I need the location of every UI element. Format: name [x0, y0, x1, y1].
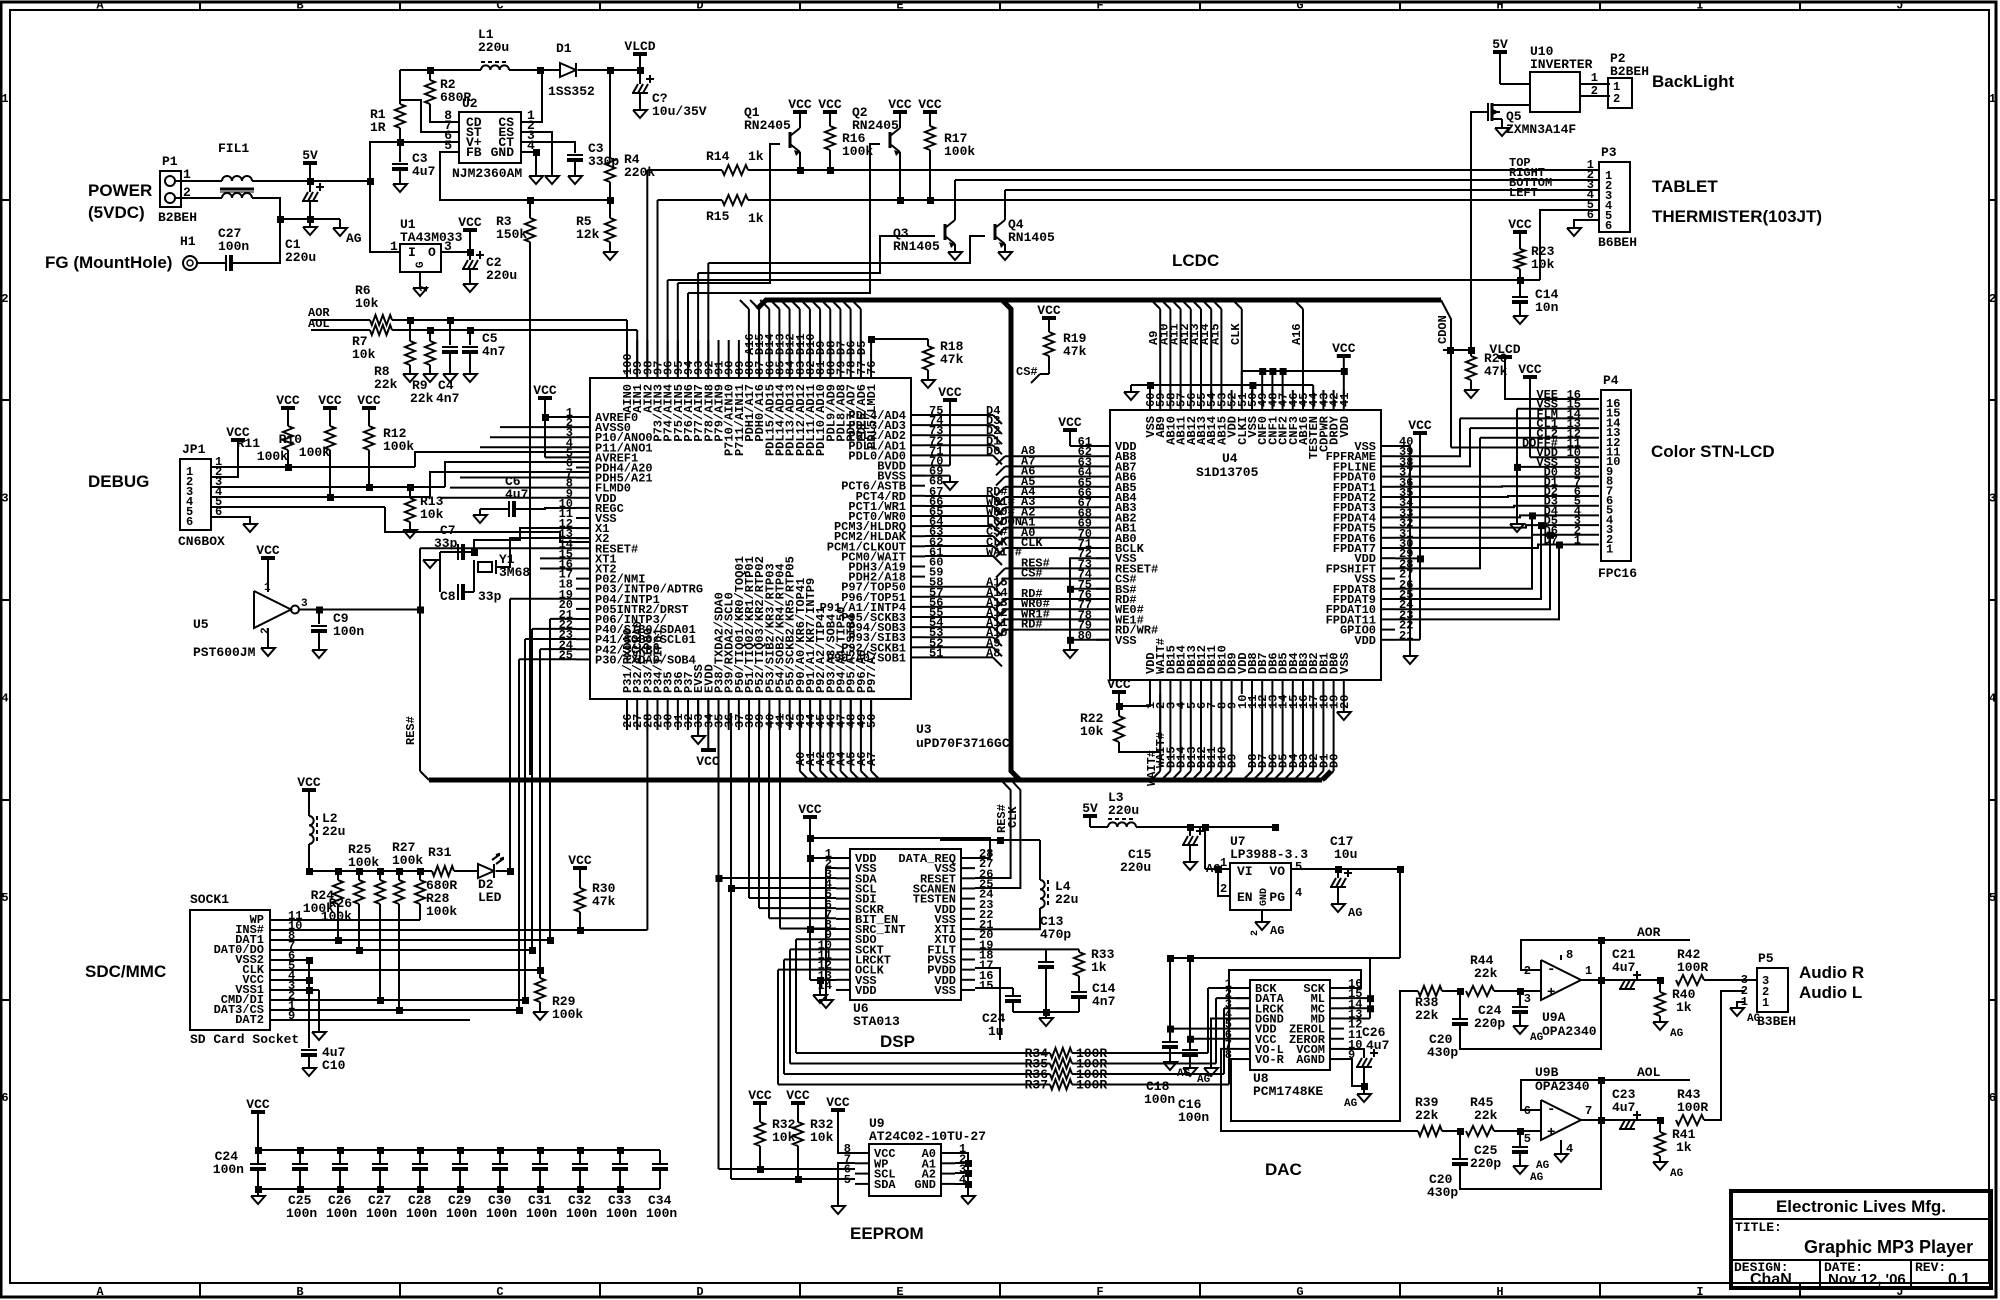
power symbol VLCD right — [1498, 355, 1512, 359]
svg-text:RN1405: RN1405 — [1008, 230, 1055, 245]
U4 left pins 61-80 — [1096, 445, 1110, 447]
wire top rail from R1 to L1 — [400, 69, 430, 71]
svg-text:I: I — [1696, 0, 1703, 13]
resistor R20 47k — [1470, 350, 1472, 356]
svg-text:SOCK1: SOCK1 — [190, 892, 229, 907]
wire U4 data bus D15-D0 to LCDC boundary — [1159, 694, 1161, 771]
svg-text:4n7: 4n7 — [436, 391, 459, 406]
svg-text:BackLight: BackLight — [1652, 72, 1735, 91]
svg-text:10k: 10k — [352, 347, 376, 362]
svg-text:F: F — [1096, 1285, 1103, 1299]
svg-text:VCC: VCC — [1332, 341, 1356, 356]
svg-text:2: 2 — [1220, 882, 1227, 896]
svg-text:Electronic Lives Mfg.: Electronic Lives Mfg. — [1776, 1197, 1946, 1216]
capacitor C14b 4n7 — [1071, 991, 1087, 993]
svg-text:TITLE:: TITLE: — [1735, 1220, 1782, 1235]
svg-text:3: 3 — [1989, 492, 1996, 506]
svg-text:VCC: VCC — [297, 775, 321, 790]
svg-text:3: 3 — [1524, 992, 1531, 1006]
resistor R3 150k — [525, 218, 535, 242]
wires U10 to P2 — [1580, 83, 1610, 85]
svg-text:2: 2 — [260, 627, 272, 634]
svg-text:22k: 22k — [374, 377, 398, 392]
capacitor C27 100n — [377, 1147, 384, 1154]
svg-text:5: 5 — [1, 891, 8, 905]
svg-text:AG: AG — [346, 231, 362, 246]
svg-text:100n: 100n — [218, 239, 249, 254]
svg-text:R37: R37 — [1025, 1078, 1048, 1093]
svg-text:A16: A16 — [1290, 323, 1304, 345]
U3 right pins 75-51 — [911, 414, 925, 416]
svg-text:1: 1 — [1, 92, 8, 106]
P4 row wires — [1517, 408, 1599, 410]
ground under C1 — [309, 219, 311, 227]
svg-text:5V: 5V — [1082, 801, 1098, 816]
svg-text:U4: U4 — [1222, 451, 1238, 466]
svg-text:22u: 22u — [322, 824, 345, 839]
svg-text:VCC: VCC — [458, 215, 482, 230]
svg-text:15: 15 — [979, 979, 993, 993]
VCC at U5 — [261, 556, 275, 560]
svg-text:VSS: VSS — [934, 984, 956, 998]
svg-text:76: 76 — [865, 361, 879, 375]
svg-text:R14: R14 — [706, 149, 730, 164]
svg-text:H: H — [1496, 0, 1503, 13]
capacitor C4 4n7 — [447, 317, 454, 324]
power symbol VCC at U1 — [463, 228, 477, 232]
svg-text:2: 2 — [1, 292, 8, 306]
U6 right pins 28-15 — [961, 857, 975, 859]
svg-text:U5: U5 — [193, 617, 209, 632]
capacitor C25 100n — [297, 1147, 304, 1154]
svg-text:10n: 10n — [1535, 300, 1559, 315]
svg-text:100n: 100n — [366, 1206, 397, 1221]
capacitor C26 100n — [337, 1147, 344, 1154]
svg-text:B3BEH: B3BEH — [1757, 1014, 1796, 1029]
staircase JP1 to MCU — [415, 452, 590, 467]
svg-text:E: E — [896, 1285, 903, 1299]
svg-text:2: 2 — [1989, 292, 1996, 306]
svg-text:ZXMN3A14F: ZXMN3A14F — [1506, 122, 1576, 137]
svg-text:POWER: POWER — [88, 181, 152, 200]
svg-text:EN: EN — [1237, 890, 1253, 905]
U6 VSS pin2 ground — [826, 868, 836, 1000]
svg-text:DAT2: DAT2 — [235, 1013, 264, 1027]
svg-text:RES#: RES# — [404, 716, 418, 745]
capacitor C2 220u — [463, 260, 468, 269]
svg-text:VCC: VCC — [256, 543, 280, 558]
wire P1 pin1 to FIL1 — [175, 180, 222, 182]
svg-text:E: E — [896, 0, 903, 13]
svg-text:P1: P1 — [162, 154, 178, 169]
svg-text:THERMISTER(103JT): THERMISTER(103JT) — [1652, 207, 1822, 226]
svg-text:100R: 100R — [1677, 960, 1708, 975]
svg-text:220k: 220k — [624, 165, 655, 180]
LCDC section thick boundary — [757, 300, 1441, 309]
wire FILT net — [975, 948, 1079, 950]
resistor R22 10k — [1118, 706, 1120, 716]
svg-text:47k: 47k — [940, 352, 964, 367]
power symbol VCC at P4 — [1523, 375, 1537, 379]
P4 VSS ground column — [1516, 409, 1518, 524]
capacitor C29 100n — [457, 1147, 464, 1154]
svg-text:100n: 100n — [333, 624, 364, 639]
svg-text:B2BEH: B2BEH — [1610, 64, 1649, 79]
svg-text:100n: 100n — [326, 1206, 357, 1221]
U4 right pins 40-21 — [1381, 445, 1395, 447]
wire VCC33 rail — [1338, 868, 1400, 870]
svg-text:220u: 220u — [478, 40, 509, 55]
JP1 pin3 wire — [225, 486, 445, 488]
svg-text:VSS: VSS — [1115, 634, 1137, 648]
svg-text:5: 5 — [444, 138, 452, 153]
U9 WP/ground — [838, 1163, 855, 1206]
U4 left pin tails with diagonals — [1005, 455, 1096, 457]
svg-text:O: O — [428, 245, 436, 260]
svg-text:S1D13705: S1D13705 — [1196, 465, 1259, 480]
wire RIGHT electrode — [954, 180, 956, 220]
svg-text:+: + — [1547, 985, 1555, 1001]
resistor R9 22k — [427, 327, 434, 334]
svg-text:100n: 100n — [1144, 1092, 1175, 1107]
capacitor C33 100n — [617, 1147, 624, 1154]
capacitor C3 330p — [521, 142, 575, 153]
svg-text:6: 6 — [1605, 219, 1612, 233]
svg-text:C: C — [496, 1285, 503, 1299]
wires tablet sense down to MCU — [646, 170, 648, 364]
svg-text:430p: 430p — [1427, 1185, 1458, 1200]
capacitor C5 4n7 — [467, 327, 474, 334]
wire R2 to CD pin — [430, 104, 459, 122]
svg-text:AG: AG — [1536, 1160, 1550, 1172]
svg-text:CLK: CLK — [1006, 806, 1020, 828]
capacitor C10 4u7 — [301, 1049, 317, 1051]
svg-text:100k: 100k — [426, 904, 457, 919]
wire Q5 gate down to CDON node — [1471, 112, 1488, 350]
VCC at U6 — [803, 815, 817, 819]
wire thermister sense across sheet — [668, 279, 1520, 281]
svg-text:AG: AG — [1344, 1098, 1358, 1110]
svg-text:TA43M033: TA43M033 — [400, 230, 463, 245]
svg-text:B: B — [296, 1285, 303, 1299]
MOSFET Q5 ZXMN3A14F — [1487, 103, 1489, 121]
svg-text:RN2405: RN2405 — [852, 118, 899, 133]
svg-text:220u: 220u — [1120, 860, 1151, 875]
capacitor C24 220p — [1519, 991, 1521, 1006]
U9 address pins strap — [955, 1153, 968, 1196]
svg-text:G: G — [1296, 0, 1303, 13]
SD pull-up rail — [309, 870, 432, 872]
svg-text:P5: P5 — [1758, 951, 1774, 966]
svg-text:VCC: VCC — [798, 802, 822, 817]
wire FIL1 bottom to AG net — [252, 198, 340, 219]
svg-text:DEBUG: DEBUG — [88, 472, 149, 491]
svg-text:DSP: DSP — [880, 1032, 915, 1051]
VCC R23 divider — [1513, 230, 1527, 234]
svg-text:VCC: VCC — [276, 393, 300, 408]
wires SDO/SCKT/LRCKT/OCLK to DAC — [796, 938, 836, 940]
svg-text:5: 5 — [1295, 860, 1302, 874]
U8 VCC feed and C16 100n — [1187, 955, 1194, 962]
svg-text:4u7: 4u7 — [1366, 1038, 1389, 1053]
svg-text:I: I — [408, 245, 416, 260]
svg-text:R31: R31 — [428, 845, 452, 860]
svg-text:FG (MountHole): FG (MountHole) — [45, 253, 172, 272]
U9A feedback loop — [1521, 940, 1601, 970]
U8 VCOM capacitor C26 4u7 — [1344, 1049, 1364, 1058]
svg-text:VCC: VCC — [1037, 303, 1061, 318]
LCD data bus FPDAT8-11 joining D4-D7 — [1395, 515, 1532, 588]
DSP analog ground rail — [1013, 1011, 1079, 1013]
svg-text:47k: 47k — [592, 894, 616, 909]
svg-text:LED: LED — [478, 890, 502, 905]
svg-text:SD Card Socket: SD Card Socket — [190, 1032, 299, 1047]
JP1 pin4 wire — [225, 496, 430, 498]
capacitor C3 4u7 at U2 — [399, 142, 401, 162]
wire FPSHIFT to CL2 — [1395, 438, 1480, 569]
svg-text:3: 3 — [1, 492, 8, 506]
wire U2 pin2 ES to ground — [521, 132, 552, 176]
svg-text:1: 1 — [1606, 543, 1613, 557]
svg-text:PDL5/LMD1: PDL5/LMD1 — [865, 384, 879, 449]
svg-text:uPD70F3716GC: uPD70F3716GC — [916, 736, 1010, 751]
analog ground AG — [339, 219, 341, 228]
resistor R41 1k — [1655, 1132, 1665, 1156]
wires SDI/SCKR/BIT_EN/SRC_INT from MCU — [749, 897, 836, 899]
svg-text:U9B: U9B — [1535, 1065, 1559, 1080]
svg-text:150k: 150k — [496, 227, 527, 242]
capacitor C24b 1u — [1005, 995, 1021, 997]
wire CDON link — [1443, 349, 1471, 351]
U4 VDD pins to VCC column — [1419, 437, 1421, 640]
svg-text:D1: D1 — [556, 41, 572, 56]
P5 pin1 ground — [1737, 1002, 1745, 1008]
resistor R8 22k — [407, 317, 414, 324]
svg-text:G: G — [1296, 1285, 1303, 1299]
U4 pin72 VSS and pin80 VSS grounds — [1070, 558, 1110, 650]
svg-text:6: 6 — [186, 515, 193, 529]
svg-text:100n: 100n — [406, 1206, 437, 1221]
capacitor C25 220p — [1519, 1131, 1521, 1146]
svg-text:430p: 430p — [1427, 1045, 1458, 1060]
U8 VO-L to R39 — [1221, 1049, 1418, 1131]
svg-text:100k: 100k — [299, 445, 330, 460]
svg-text:6: 6 — [1989, 1091, 1996, 1105]
svg-text:B2BEH: B2BEH — [158, 210, 197, 225]
U4 top A9-A15 bus from LCDC boundary — [1151, 300, 1160, 309]
svg-text:+: + — [1547, 1125, 1555, 1141]
svg-text:EEPROM: EEPROM — [850, 1224, 924, 1243]
VCC at U4 bottom — [1112, 690, 1126, 694]
svg-text:10u/35V: 10u/35V — [652, 104, 707, 119]
SOCK1 signal wires — [284, 919, 420, 921]
resistor R17 100k — [923, 110, 937, 114]
svg-text:100R: 100R — [1677, 1100, 1708, 1115]
wire RES# to MCU RESET — [420, 547, 576, 549]
U1 output to VCC — [441, 251, 470, 253]
svg-text:SDC/MMC: SDC/MMC — [85, 962, 166, 981]
capacitor C14 10n — [1519, 280, 1521, 296]
svg-text:VCC: VCC — [246, 1097, 270, 1112]
svg-text:R15: R15 — [706, 209, 730, 224]
svg-text:1: 1 — [183, 167, 191, 182]
svg-text:GND: GND — [1259, 888, 1270, 906]
svg-text:VCC: VCC — [818, 97, 842, 112]
wire thermister sense to AIN — [667, 280, 669, 364]
svg-text:22k: 22k — [1415, 1008, 1439, 1023]
svg-text:1SS352: 1SS352 — [548, 84, 595, 99]
U9 SCL/SDA wires — [719, 1168, 856, 1170]
capacitor C? 10u/35V — [633, 84, 638, 93]
wire U4 pin20 VSS to ground — [1343, 694, 1345, 712]
inductor L2 22u — [309, 816, 314, 844]
inductor L4 22u — [1040, 880, 1045, 908]
svg-text:AG: AG — [1670, 1168, 1684, 1180]
wire V+ pin to 5V rail — [370, 142, 459, 181]
svg-text:VDD: VDD — [855, 984, 877, 998]
JP1 pin1 wire — [225, 466, 415, 468]
svg-text:H: H — [1496, 1285, 1503, 1299]
resistor R33 1k — [1074, 952, 1084, 976]
U4 CNF strap to VCC — [1242, 370, 1344, 372]
svg-text:INVERTER: INVERTER — [1530, 57, 1593, 72]
resistor R13 10k — [405, 498, 415, 522]
svg-text:AG: AG — [1348, 906, 1362, 920]
svg-text:220u: 220u — [1108, 803, 1139, 818]
svg-text:GND: GND — [914, 1178, 936, 1192]
U6 left pins 1-14 — [836, 857, 850, 859]
svg-text:FIL1: FIL1 — [218, 141, 249, 156]
capacitor C9 100n — [318, 610, 320, 625]
svg-text:1k: 1k — [1676, 1000, 1692, 1015]
svg-text:ChaN: ChaN — [1750, 1271, 1792, 1288]
wire LED drive from P04 — [510, 598, 576, 600]
svg-text:100k: 100k — [383, 439, 414, 454]
svg-text:22u: 22u — [1055, 892, 1078, 907]
wire FPLINE to CL1 — [1395, 428, 1470, 466]
svg-text:AT24C02-10TU-27: AT24C02-10TU-27 — [869, 1129, 986, 1144]
svg-text:8: 8 — [1566, 948, 1573, 962]
svg-text:RN1405: RN1405 — [893, 239, 940, 254]
svg-text:VCC: VCC — [918, 97, 942, 112]
U8 VDD feed and C18 100n — [1167, 955, 1174, 962]
U9A power from 5V — [1560, 955, 1562, 960]
capacitor C30 100n — [497, 1147, 504, 1154]
svg-text:DAC: DAC — [1265, 1160, 1302, 1179]
svg-text:VCC: VCC — [888, 97, 912, 112]
power symbol VCC at L2 — [302, 788, 316, 792]
svg-text:P4: P4 — [1603, 373, 1619, 388]
wire BOTTOM electrode — [1004, 190, 1006, 220]
resistor R1 1R — [395, 104, 405, 128]
svg-text:100n: 100n — [486, 1206, 517, 1221]
svg-text:VCC: VCC — [1058, 415, 1082, 430]
crystal Y1 3M68 — [478, 562, 492, 572]
svg-text:1k: 1k — [748, 211, 764, 226]
power symbol 5V — [303, 161, 317, 165]
XTI net — [975, 908, 1040, 929]
svg-text:G: G — [415, 261, 427, 268]
svg-text:-: - — [1547, 962, 1555, 978]
U3 A16/D15-D5 bus bundle from LCDC boundary — [740, 300, 749, 309]
capacitor C34 100n — [652, 1163, 668, 1165]
svg-text:10k: 10k — [1080, 724, 1104, 739]
svg-text:7: 7 — [1585, 1104, 1592, 1118]
svg-text:10k: 10k — [810, 1130, 834, 1145]
power symbol VLCD — [633, 52, 647, 56]
svg-text:VCC: VCC — [786, 1088, 810, 1103]
resistor R29 100k — [537, 967, 544, 974]
resistor R11 100k — [281, 406, 295, 410]
JP1 pin5 wire — [225, 506, 385, 508]
svg-text:VCC: VCC — [788, 97, 812, 112]
svg-text:100k: 100k — [552, 1007, 583, 1022]
svg-text:1k: 1k — [1091, 960, 1107, 975]
ground at SOCK1 vss — [318, 990, 320, 1032]
PVDD wire — [975, 968, 1000, 1040]
U3 SD-card pins to SOCK1 column — [550, 618, 576, 620]
wire P1 pin2 to FIL1 — [175, 197, 222, 199]
svg-text:JP1: JP1 — [182, 442, 206, 457]
svg-text:VSS: VSS — [1338, 652, 1352, 674]
svg-text:2: 2 — [1613, 92, 1620, 106]
U4 VSS/TESTEN strap to ground — [1131, 384, 1313, 386]
capacitor C20 430p lower — [1459, 1131, 1461, 1158]
svg-text:B6BEH: B6BEH — [1598, 235, 1637, 250]
svg-text:F: F — [1096, 0, 1103, 13]
resistor R2 680R — [425, 80, 435, 104]
capacitor C28 100n — [417, 1147, 424, 1154]
svg-text:VCC: VCC — [826, 1095, 850, 1110]
capacitor bank rail — [258, 1149, 660, 1151]
wire INS# up to MCU — [580, 929, 647, 931]
svg-text:4u7: 4u7 — [1612, 1100, 1635, 1115]
svg-text:100k: 100k — [944, 144, 975, 159]
power symbol 5V backlight — [1493, 50, 1507, 54]
svg-text:6: 6 — [1, 1091, 8, 1105]
wire Q1 base drive — [678, 144, 780, 283]
svg-text:AG: AG — [1270, 924, 1284, 938]
svg-text:0.1: 0.1 — [1948, 1271, 1970, 1288]
svg-text:FB: FB — [466, 145, 482, 160]
svg-text:100k: 100k — [842, 144, 873, 159]
wire crystal to X1/X2 — [474, 528, 590, 552]
VCC at U4 right — [1413, 431, 1427, 435]
wire U4 left VSS/VDD rail — [1063, 428, 1077, 432]
wire U4 pin1 VDD — [1119, 694, 1150, 706]
svg-text:P97/A7: P97/A7 — [865, 650, 879, 693]
svg-text:C8: C8 — [440, 589, 456, 604]
svg-text:1: 1 — [1591, 71, 1598, 85]
svg-text:10k: 10k — [772, 1130, 796, 1145]
svg-text:VCC: VCC — [1508, 217, 1532, 232]
svg-text:VCC: VCC — [568, 853, 592, 868]
op-amp U9B OPA2340 — [1541, 1100, 1581, 1140]
svg-text:4: 4 — [1295, 886, 1302, 900]
U9B output — [1581, 1119, 1660, 1121]
power symbol VCC at JP1 — [231, 438, 245, 442]
wire Q2 base drive — [688, 144, 880, 293]
svg-text:D: D — [696, 1285, 703, 1299]
svg-text:CN6BOX: CN6BOX — [178, 534, 225, 549]
svg-text:VCC: VCC — [318, 393, 342, 408]
svg-text:PCM1748KE: PCM1748KE — [1253, 1084, 1323, 1099]
wire AOL to AIN1 — [636, 330, 638, 364]
wire U2 pin4 GND to ground — [521, 151, 536, 153]
svg-text:22k: 22k — [1415, 1108, 1439, 1123]
svg-text:VCC: VCC — [533, 383, 557, 398]
svg-text:100n: 100n — [606, 1206, 637, 1221]
